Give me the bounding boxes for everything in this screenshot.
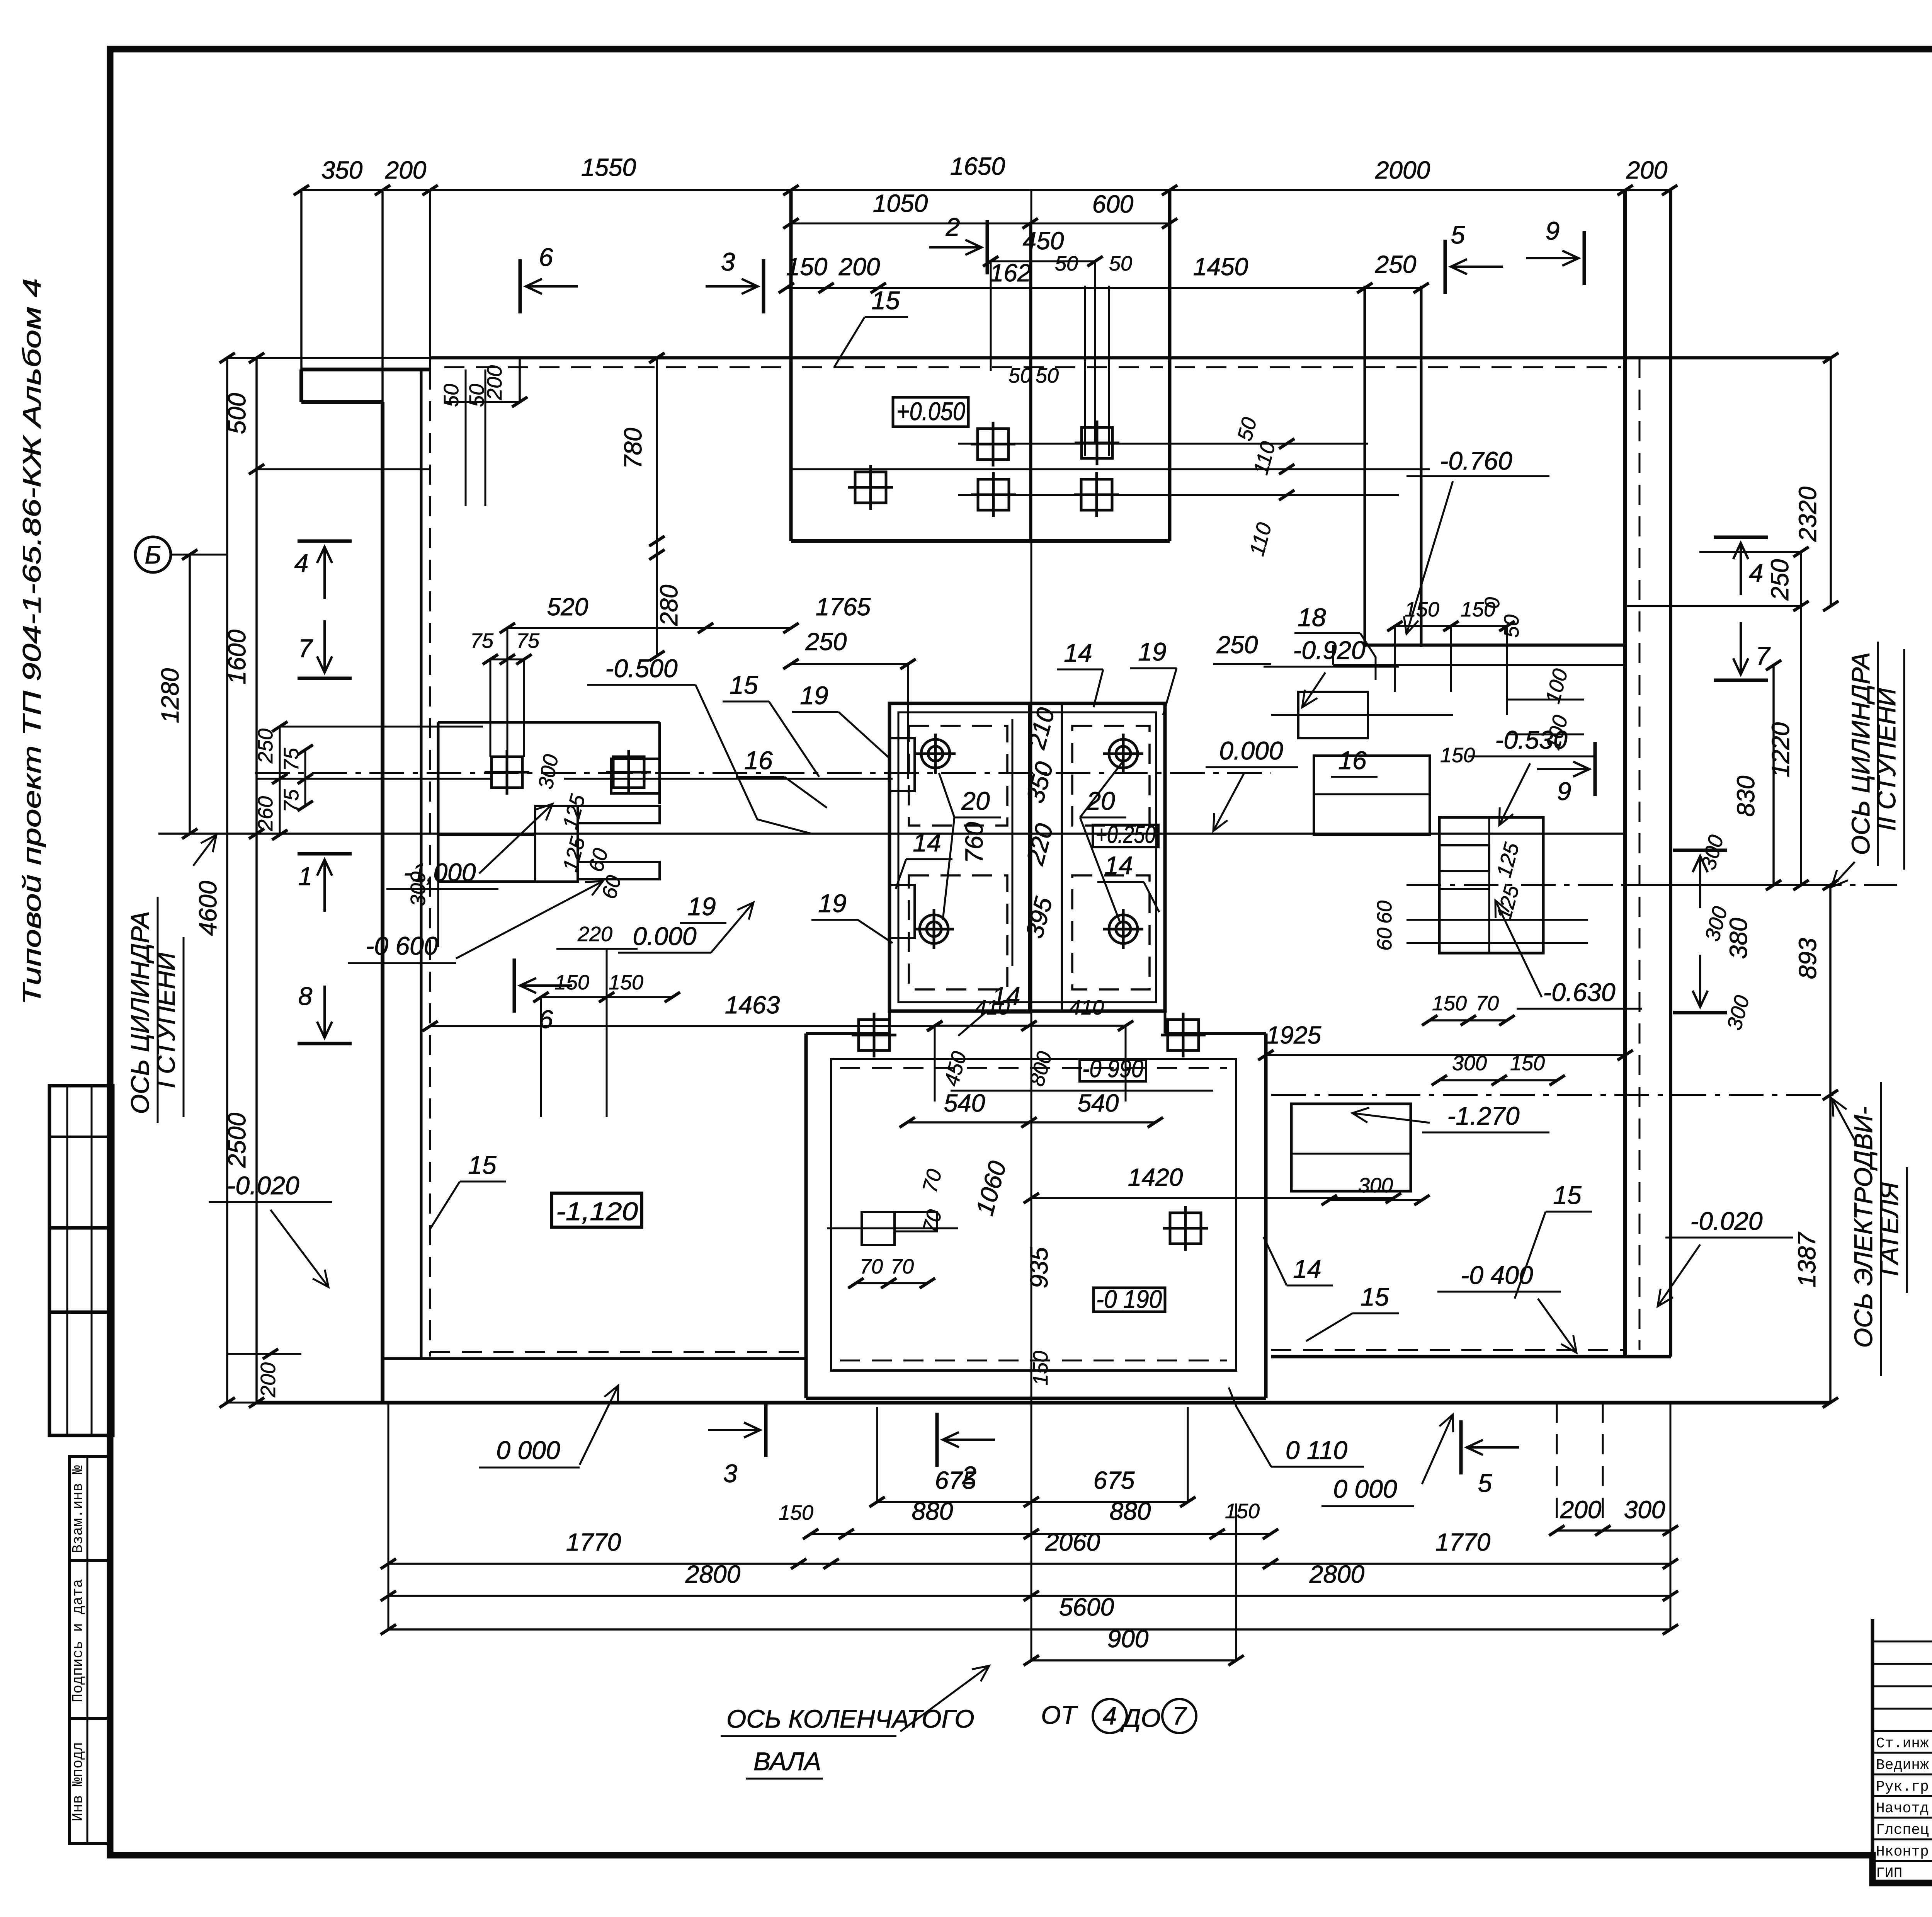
svg-text:150: 150 <box>1225 1500 1260 1523</box>
svg-text:Типовой проект ТП 904-1-65: Типовой проект ТП 904-1-65.86-КЖ Альбом … <box>17 278 46 1005</box>
svg-text:220: 220 <box>1021 821 1059 868</box>
dim 1420 / 300 <box>1031 1197 1393 1199</box>
svg-text:1280: 1280 <box>156 668 184 723</box>
svg-text:ГИП: ГИП <box>1876 1865 1902 1882</box>
svg-text:150: 150 <box>779 1501 813 1524</box>
left approval table <box>49 1086 113 1435</box>
foundation outline: top edge <box>430 356 1830 359</box>
svg-text:125: 125 <box>558 792 590 831</box>
svg-text:75: 75 <box>516 629 540 652</box>
svg-text:50: 50 <box>1109 252 1132 275</box>
svg-text:150: 150 <box>1405 598 1439 621</box>
right wall <box>1623 190 1627 1357</box>
axis bubble Б <box>135 537 171 572</box>
svg-text:ДО: ДО <box>1120 1704 1161 1732</box>
svg-text:250: 250 <box>1216 631 1258 659</box>
dim 450 / 162 <box>991 260 1095 262</box>
svg-text:250: 250 <box>805 628 847 655</box>
left pocket block <box>438 721 660 724</box>
svg-text:1925: 1925 <box>1266 1021 1321 1049</box>
svg-text:ОСЬ ЦИЛИНДРА: ОСЬ ЦИЛИНДРА <box>126 911 154 1114</box>
svg-text:ОСЬ ЭЛЕКТРОДВИ-: ОСЬ ЭЛЕКТРОДВИ- <box>1849 1107 1878 1348</box>
svg-text:50: 50 <box>1055 252 1078 275</box>
step block 18 / -0.760 <box>1365 644 1625 647</box>
svg-text:675: 675 <box>1094 1466 1135 1494</box>
svg-text:200: 200 <box>1626 156 1668 184</box>
svg-text:0.000: 0.000 <box>1219 736 1283 765</box>
level -0.190 <box>1094 1288 1165 1312</box>
svg-text:-0.500: -0.500 <box>605 654 677 683</box>
svg-text:18: 18 <box>1298 603 1326 632</box>
section marks left column <box>298 540 352 543</box>
svg-text:350: 350 <box>1021 759 1058 806</box>
svg-text:60: 60 <box>597 873 626 902</box>
svg-text:150: 150 <box>1440 744 1475 767</box>
svg-text:Подпись и дата: Подпись и дата <box>70 1579 87 1702</box>
svg-text:9: 9 <box>1557 777 1571 805</box>
svg-text:780: 780 <box>619 427 647 469</box>
svg-text:16: 16 <box>744 746 773 775</box>
svg-text:60: 60 <box>584 846 613 875</box>
svg-text:2320: 2320 <box>1794 486 1821 542</box>
svg-text:14: 14 <box>913 828 941 857</box>
svg-text:300: 300 <box>1624 1496 1665 1524</box>
svg-text:Глспец: Глспец <box>1876 1822 1929 1839</box>
svg-text:3: 3 <box>723 1459 738 1488</box>
svg-text:300: 300 <box>1358 1174 1393 1197</box>
svg-text:15: 15 <box>871 286 900 315</box>
left small element with 70 dims <box>862 1212 895 1245</box>
dim 200 top left <box>519 358 521 402</box>
svg-text:75: 75 <box>470 629 494 652</box>
svg-text:60: 60 <box>1373 901 1396 924</box>
inner steps of block <box>611 759 660 793</box>
svg-text:50: 50 <box>1009 364 1032 387</box>
svg-text:880: 880 <box>912 1497 953 1525</box>
svg-text:-1,120: -1,120 <box>556 1197 638 1226</box>
svg-text:6: 6 <box>539 243 553 271</box>
svg-text:0 110: 0 110 <box>1286 1436 1348 1464</box>
lower central pit <box>806 1032 889 1035</box>
svg-text:880: 880 <box>1110 1497 1151 1525</box>
svg-text:830: 830 <box>1732 775 1760 817</box>
svg-text:Взам.инв №: Взам.инв № <box>70 1465 87 1553</box>
svg-text:Б: Б <box>145 540 162 569</box>
crank centre line <box>1031 190 1032 1662</box>
left small chain 250 260 75 75 <box>279 727 281 835</box>
svg-text:I СТУПЕНИ: I СТУПЕНИ <box>151 952 180 1088</box>
axis cylinder I y=2000 <box>255 772 1271 774</box>
svg-text:ОСЬ КОЛЕНЧАТОГО: ОСЬ КОЛЕНЧАТОГО <box>726 1704 975 1733</box>
svg-text:760: 760 <box>960 822 988 863</box>
svg-text:60: 60 <box>1373 928 1396 951</box>
svg-text:7: 7 <box>298 634 313 662</box>
svg-text:4: 4 <box>1749 558 1764 587</box>
svg-text:-0.630: -0.630 <box>1543 978 1615 1006</box>
svg-text:300: 300 <box>406 872 430 906</box>
section marks inner/bottom <box>513 958 516 1013</box>
dim 1050 600 <box>791 223 1170 225</box>
svg-text:-1.270: -1.270 <box>1447 1102 1519 1130</box>
svg-text:15: 15 <box>468 1151 497 1179</box>
top-left step <box>301 368 430 371</box>
svg-text:150: 150 <box>1432 992 1467 1015</box>
svg-text:1600: 1600 <box>223 629 251 684</box>
svg-text:ОСЬ ЦИЛИНДРА: ОСЬ ЦИЛИНДРА <box>1846 652 1875 855</box>
svg-text:150: 150 <box>1029 1351 1052 1386</box>
svg-text:125: 125 <box>1492 882 1524 922</box>
right slab bottom <box>1271 1355 1671 1359</box>
svg-text:260: 260 <box>254 796 277 831</box>
dim 5600 <box>388 1628 1670 1631</box>
svg-text:0.000: 0.000 <box>633 922 696 950</box>
svg-text:300: 300 <box>534 752 563 791</box>
svg-text:1: 1 <box>298 862 313 890</box>
svg-text:4: 4 <box>1103 1701 1117 1730</box>
left wall <box>381 402 384 1403</box>
right wall small arrows 300 <box>1673 849 1727 852</box>
svg-text:ОТ: ОТ <box>1041 1701 1078 1729</box>
left edge notches <box>889 738 915 791</box>
svg-text:200: 200 <box>483 365 506 400</box>
anchor bolt squares upper slab <box>971 422 1015 466</box>
svg-text:410: 410 <box>1069 996 1104 1019</box>
svg-text:5600: 5600 <box>1059 1593 1114 1621</box>
svg-text:200: 200 <box>838 253 880 281</box>
level mark +0.050 <box>893 397 968 427</box>
dim 150 880 880 150 <box>811 1533 1270 1535</box>
upper middle slab <box>789 190 793 541</box>
svg-text:380: 380 <box>1725 918 1752 959</box>
svg-text:2500: 2500 <box>223 1112 251 1168</box>
svg-text:+0.050: +0.050 <box>896 397 965 426</box>
dim 1280 <box>189 555 191 834</box>
svg-text:935: 935 <box>1025 1247 1053 1288</box>
svg-text:2060: 2060 <box>1045 1528 1100 1556</box>
dim 900 <box>1031 1659 1236 1662</box>
dim 1770 2060 1770 <box>388 1563 1670 1565</box>
svg-text:19: 19 <box>1138 637 1166 666</box>
svg-text:2800: 2800 <box>1309 1560 1365 1588</box>
svg-text:1770: 1770 <box>1435 1528 1491 1556</box>
svg-text:19: 19 <box>818 889 846 918</box>
svg-text:500: 500 <box>223 393 251 434</box>
svg-text:2800: 2800 <box>685 1560 741 1588</box>
svg-text:Начотд: Начотд <box>1876 1800 1929 1817</box>
svg-text:7: 7 <box>1172 1701 1187 1730</box>
svg-text:Рук.гр: Рук.гр <box>1876 1779 1929 1795</box>
svg-text:-0 190: -0 190 <box>1096 1285 1162 1313</box>
dim 2800 2800 <box>388 1595 1670 1597</box>
svg-text:ВАЛА: ВАЛА <box>753 1747 821 1776</box>
svg-text:162: 162 <box>990 259 1031 287</box>
svg-text:15: 15 <box>1553 1181 1582 1209</box>
dim 1463 <box>430 1025 935 1027</box>
svg-text:-0.920: -0.920 <box>1293 636 1365 664</box>
level -1.120 box <box>552 1193 642 1227</box>
svg-text:14: 14 <box>1104 851 1133 880</box>
svg-text:540: 540 <box>944 1089 985 1117</box>
svg-text:110: 110 <box>1245 520 1276 558</box>
left slab inner bottom <box>383 1357 806 1360</box>
svg-text:125: 125 <box>1492 840 1524 880</box>
svg-text:1420: 1420 <box>1128 1163 1183 1191</box>
svg-text:-0.020: -0.020 <box>227 1171 299 1200</box>
dim 1925 <box>1266 1054 1625 1056</box>
svg-text:15: 15 <box>1361 1282 1389 1311</box>
svg-text:520: 520 <box>547 593 588 621</box>
right dims 2320 250 1220 830 893 1387 <box>1699 551 1801 553</box>
svg-text:1450: 1450 <box>1193 253 1248 281</box>
svg-text:2: 2 <box>946 213 960 241</box>
svg-text:200: 200 <box>257 1362 280 1398</box>
svg-text:540: 540 <box>1078 1089 1119 1117</box>
svg-text:2: 2 <box>962 1461 976 1490</box>
svg-text:200: 200 <box>1560 1496 1602 1524</box>
svg-text:14: 14 <box>1293 1255 1321 1283</box>
svg-text:150: 150 <box>1461 598 1495 621</box>
squares right slab <box>1163 1206 1208 1251</box>
line 0.000 level y=2157 <box>158 833 1625 835</box>
svg-text:-0 990: -0 990 <box>1082 1055 1143 1083</box>
svg-text:450: 450 <box>1023 227 1064 255</box>
dim 410 410 <box>935 1025 1126 1027</box>
svg-text:16: 16 <box>1338 746 1367 775</box>
svg-text:+0.250: +0.250 <box>1096 821 1156 848</box>
anchor sleeves <box>915 734 956 774</box>
svg-text:5: 5 <box>1451 220 1465 249</box>
dims 780 280 <box>656 358 658 656</box>
svg-text:ГАТЕЛЯ: ГАТЕЛЯ <box>1875 1182 1903 1276</box>
svg-text:-0.760: -0.760 <box>1440 446 1512 475</box>
svg-text:2000: 2000 <box>1375 156 1430 184</box>
svg-text:893: 893 <box>1794 938 1821 979</box>
svg-text:70: 70 <box>891 1255 914 1278</box>
svg-text:0 000: 0 000 <box>496 1436 560 1464</box>
svg-text:1220: 1220 <box>1767 722 1794 777</box>
svg-text:50: 50 <box>1233 415 1262 444</box>
svg-text:600: 600 <box>1092 190 1134 218</box>
svg-text:220: 220 <box>577 923 612 946</box>
svg-text:1050: 1050 <box>873 189 928 217</box>
svg-text:1387: 1387 <box>1793 1231 1821 1287</box>
pocket-to-pit connectors <box>888 1011 891 1033</box>
svg-text:9: 9 <box>1546 216 1560 245</box>
svg-text:410: 410 <box>975 996 1010 1019</box>
svg-text:II СТУПЕНИ: II СТУПЕНИ <box>1872 688 1901 831</box>
svg-text:3: 3 <box>721 247 735 276</box>
svg-text:1765: 1765 <box>816 593 871 621</box>
level -0.990 <box>1080 1060 1146 1081</box>
svg-text:1770: 1770 <box>566 1528 621 1556</box>
svg-text:50: 50 <box>1036 364 1059 387</box>
svg-text:75: 75 <box>280 789 303 812</box>
left dim chain 500 1600 2500 / 4600 / 200 <box>226 358 228 1403</box>
svg-text:7: 7 <box>1756 642 1771 670</box>
svg-text:-0 600: -0 600 <box>366 931 438 960</box>
level +0.250 <box>1093 825 1158 847</box>
svg-text:70: 70 <box>918 1167 947 1195</box>
svg-text:70: 70 <box>1476 992 1499 1015</box>
svg-text:14: 14 <box>1064 638 1092 667</box>
svg-text:Инв №подл: Инв №подл <box>70 1742 87 1821</box>
svg-text:250: 250 <box>1766 559 1794 601</box>
svg-text:-0 400: -0 400 <box>1461 1261 1533 1289</box>
dim 150 200 ... 1450 250 <box>786 287 1421 289</box>
svg-text:250: 250 <box>254 729 277 764</box>
dim 520 / 75 75 <box>507 627 791 629</box>
svg-text:350: 350 <box>321 156 363 184</box>
svg-text:200: 200 <box>385 156 427 184</box>
svg-text:Нконтр: Нконтр <box>1876 1844 1929 1860</box>
svg-text:-0.020: -0.020 <box>1690 1207 1762 1235</box>
bolts lower pit <box>852 1013 896 1057</box>
svg-text:300: 300 <box>1697 833 1728 872</box>
dim 200 300 right <box>1557 1529 1670 1532</box>
block 16 <box>1314 756 1430 835</box>
bottom edge <box>257 1401 1830 1405</box>
svg-text:20: 20 <box>961 787 990 815</box>
dim 540 540 <box>907 1121 1155 1124</box>
motor axis y=2833 <box>1271 1094 1833 1096</box>
svg-text:8: 8 <box>298 982 313 1010</box>
svg-text:1463: 1463 <box>725 991 780 1019</box>
svg-text:150: 150 <box>609 971 643 994</box>
svg-text:250: 250 <box>1375 250 1417 278</box>
dashed anchor recesses <box>909 726 1007 826</box>
section marks top row <box>519 259 522 313</box>
left inventory strip table: Взам.инв № / Подпись и дата / Инв №подл <box>70 1456 110 1844</box>
svg-text:395: 395 <box>1020 894 1058 941</box>
svg-text:75: 75 <box>280 747 303 771</box>
svg-text:150: 150 <box>554 971 589 994</box>
machine pocket outer <box>889 703 1165 1011</box>
svg-text:-0.530: -0.530 <box>1495 725 1567 754</box>
svg-text:19: 19 <box>800 681 828 710</box>
svg-text:110: 110 <box>1249 439 1280 477</box>
block -1.270 <box>1291 1104 1411 1191</box>
staff rows <box>1872 1641 1932 1643</box>
pocket centre channel <box>1028 703 1031 1011</box>
svg-text:1550: 1550 <box>581 153 636 181</box>
svg-text:0 000: 0 000 <box>1333 1474 1397 1503</box>
svg-text:6: 6 <box>539 1005 553 1033</box>
svg-text:Вединж: Вединж <box>1876 1757 1929 1774</box>
svg-text:70: 70 <box>860 1255 883 1278</box>
svg-text:15: 15 <box>730 671 758 699</box>
svg-text:Ст.инж: Ст.инж <box>1876 1735 1929 1752</box>
axis cylinder II y=2290 <box>1406 884 1897 886</box>
svg-text:19: 19 <box>687 892 716 921</box>
svg-text:300: 300 <box>1723 993 1754 1033</box>
svg-text:4: 4 <box>294 549 309 577</box>
dim 675 675 <box>877 1501 1188 1503</box>
svg-text:800: 800 <box>1025 1049 1056 1089</box>
svg-text:1060: 1060 <box>971 1158 1012 1219</box>
top dimension chain 350 200 1550 1650 2000 200 <box>301 189 1670 191</box>
svg-text:280: 280 <box>655 584 683 626</box>
svg-text:900: 900 <box>1107 1625 1149 1653</box>
svg-text:5: 5 <box>1478 1469 1492 1497</box>
svg-text:1650: 1650 <box>950 152 1005 180</box>
svg-text:450: 450 <box>940 1049 971 1089</box>
svg-text:4600: 4600 <box>194 880 222 936</box>
svg-text:50: 50 <box>440 384 463 407</box>
